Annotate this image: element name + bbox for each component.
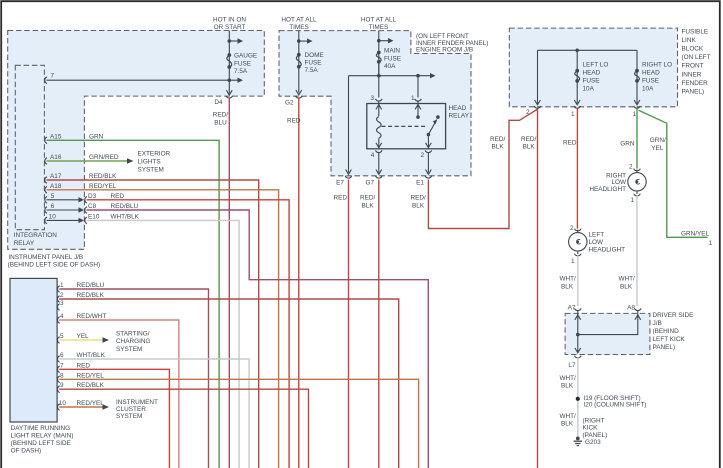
wire RED from D3: [87, 200, 290, 468]
svg-text:5: 5: [60, 333, 64, 340]
wire RED/BLU DRL pin1: [59, 289, 208, 468]
fuse RIGHT LO HEAD FUSE 10A: [635, 71, 640, 81]
wire GRN/YEL branch: [639, 110, 708, 237]
svg-text:HEAD: HEAD: [642, 70, 660, 77]
connector DRL pin 1: [58, 286, 60, 293]
svg-text:A7: A7: [568, 305, 576, 312]
svg-text:J/B: J/B: [653, 320, 662, 327]
ground G203: [576, 437, 580, 441]
fuse LEFT LO HEAD FUSE 10A: [575, 71, 580, 81]
arrow exit L7: [575, 348, 581, 353]
svg-text:LEFT KICK: LEFT KICK: [653, 336, 686, 343]
svg-text:TIMES: TIMES: [289, 24, 309, 31]
arrow exit E7: [346, 170, 352, 175]
connector integration relay pin A17: [45, 177, 47, 184]
connector head relay pin 3: [376, 99, 383, 101]
svg-text:SYSTEM: SYSTEM: [138, 166, 164, 173]
arrow exit E1: [426, 170, 432, 175]
svg-text:6: 6: [60, 352, 64, 359]
svg-text:HEADLIGHT: HEADLIGHT: [589, 186, 626, 193]
svg-text:2: 2: [420, 152, 424, 159]
svg-text:GRN/RED: GRN/RED: [89, 154, 119, 161]
dashed actuator link coil to switch: [382, 125, 428, 127]
connector D4: [226, 96, 233, 98]
svg-text:GRN/: GRN/: [650, 137, 666, 144]
engine room J/B (on left front inner fender panel): [279, 31, 471, 176]
svg-text:CHARGING: CHARGING: [116, 338, 150, 345]
wire pin5 to D3: [47, 199, 80, 201]
svg-text:RED/YEL: RED/YEL: [89, 183, 117, 190]
svg-text:YEL: YEL: [651, 145, 664, 152]
connector left headlight pin 2: [575, 229, 582, 231]
connector A7: [575, 308, 582, 310]
node I19/I20 junction: [576, 397, 580, 401]
svg-text:PANEL): PANEL): [653, 344, 676, 351]
fuse DOME 7.5A feed line: [298, 31, 300, 93]
connector integration relay pin A16: [45, 158, 47, 165]
svg-text:7: 7: [50, 73, 54, 80]
svg-text:SYSTEM: SYSTEM: [116, 346, 142, 353]
wire GRN right fuse to right low headlight: [636, 108, 638, 168]
svg-text:2: 2: [629, 163, 633, 170]
svg-text:10A: 10A: [642, 85, 654, 92]
connector DRL pin 8: [58, 376, 60, 383]
svg-text:L7: L7: [568, 362, 576, 369]
connector A8: [635, 308, 642, 310]
node switch contact open side: [436, 115, 440, 119]
svg-text:9: 9: [60, 382, 64, 389]
svg-text:RED: RED: [287, 118, 301, 125]
wire GRN/RED A16 to exterior lights: [47, 160, 128, 162]
lamp LEFT LOW HEADLIGHT: [569, 233, 587, 251]
connector integration relay pin A18: [45, 187, 47, 194]
connector DRL pin 9: [58, 386, 60, 393]
svg-text:BLOCK: BLOCK: [682, 46, 704, 53]
wire pin10 to E10: [47, 219, 80, 221]
svg-text:DOME: DOME: [305, 52, 324, 59]
wire pin4 to G7 exit: [378, 152, 380, 173]
svg-text:INSTRUMENT PANEL J/B: INSTRUMENT PANEL J/B: [8, 254, 83, 261]
svg-text:RIGHT LO: RIGHT LO: [642, 62, 672, 69]
svg-text:SYSTEM: SYSTEM: [116, 413, 142, 420]
svg-text:RED: RED: [563, 140, 577, 147]
svg-text:GAUGE: GAUGE: [234, 53, 257, 60]
svg-text:LEFT LO: LEFT LO: [583, 62, 609, 69]
wire WHT/BLK left headlight to A7: [577, 255, 579, 306]
head relay switch input pin1: [417, 101, 419, 116]
fusible link block (on left front inner fender panel): [509, 28, 677, 107]
svg-text:(ON LEFT: (ON LEFT: [682, 54, 711, 61]
node gauge feed tap: [228, 39, 232, 43]
wire right fuse drop: [636, 50, 638, 103]
svg-text:ENGINE ROOM J/B: ENGINE ROOM J/B: [416, 47, 473, 54]
svg-text:10: 10: [59, 400, 67, 407]
wire drop to head relay pin 1: [417, 76, 419, 98]
svg-text:WHT/BLK: WHT/BLK: [77, 352, 106, 359]
wire drop to E7: [348, 76, 350, 173]
fuse MAIN 40A feed line: [378, 31, 380, 76]
connector C8: [85, 207, 87, 214]
svg-text:GRN/YEL: GRN/YEL: [681, 231, 710, 238]
svg-text:G203: G203: [585, 439, 601, 446]
svg-text:I20 (COLUMN SHIFT): I20 (COLUMN SHIFT): [584, 401, 647, 408]
svg-text:A15: A15: [50, 134, 62, 141]
svg-text:BLK: BLK: [561, 283, 574, 290]
svg-text:A8: A8: [627, 305, 635, 312]
svg-text:RELAY: RELAY: [14, 240, 35, 247]
wire GRN A15: [47, 140, 220, 468]
daytime running light relay (main) box: [10, 278, 57, 422]
node driver J/B junction: [576, 333, 580, 337]
svg-text:A16: A16: [50, 154, 62, 161]
connector pin 7 integration relay: [45, 77, 47, 84]
wire A7 riser inside driver J/B: [577, 310, 579, 351]
connector head relay pin 4: [376, 150, 383, 152]
svg-text:RED/WHT: RED/WHT: [77, 313, 107, 320]
svg-text:KICK: KICK: [583, 425, 599, 432]
wire fusible bus: [538, 49, 638, 51]
connector fusible pin 1 right: [634, 106, 641, 108]
wire RED/YEL DRL pin8: [59, 379, 418, 468]
wire RED from E7 down: [348, 180, 350, 468]
wire WHT/BLK from E10: [87, 220, 240, 468]
svg-text:E7: E7: [336, 180, 344, 187]
arrow exit G2: [296, 90, 302, 95]
connector left headlight pin 1: [575, 254, 582, 256]
wire WHT/BLK right headlight to A8: [636, 195, 638, 306]
svg-text:2: 2: [60, 292, 64, 299]
connector D3: [85, 197, 87, 204]
svg-text:BLK: BLK: [412, 202, 425, 209]
wire RED left fuse to left low headlight: [576, 108, 578, 228]
svg-text:BLK: BLK: [620, 283, 633, 290]
wire YEL DRL pin5 to starting/charging: [59, 339, 103, 341]
coil of head relay: [377, 117, 382, 139]
svg-text:RED/: RED/: [360, 195, 375, 202]
connector right headlight pin 1: [634, 194, 641, 196]
node junction pin7 line: [228, 78, 232, 82]
svg-text:OR START: OR START: [214, 24, 246, 31]
head relay box: [367, 104, 446, 149]
switch blade head relay: [428, 120, 436, 134]
wire left fuse drop: [576, 50, 578, 103]
connector DRL pin 4: [58, 317, 60, 324]
connector E10: [85, 217, 87, 224]
wire RED/BLK from E1 to fusible link pin 2: [428, 109, 537, 228]
svg-text:LINK: LINK: [682, 37, 697, 44]
wire drop head relay pin 3: [378, 63, 380, 98]
svg-text:RED/BLK: RED/BLK: [77, 292, 105, 299]
svg-text:STARTING/: STARTING/: [116, 331, 150, 338]
arrow exit G7: [376, 170, 382, 175]
svg-text:OF DASH): OF DASH): [11, 447, 42, 454]
svg-text:1: 1: [411, 95, 415, 102]
svg-text:LIGHTS: LIGHTS: [138, 158, 161, 165]
connector integration relay pin A15: [45, 137, 47, 144]
svg-text:BLK: BLK: [492, 144, 505, 151]
wire RED/YEL DRL pin10 to instrument cluster: [59, 406, 103, 408]
fuse MAIN FUSE 40A symbol: [376, 53, 381, 62]
svg-text:INNER: INNER: [682, 71, 702, 78]
svg-text:7.5A: 7.5A: [305, 67, 319, 74]
connector integration relay pin 10: [45, 217, 47, 224]
svg-text:FUSE: FUSE: [234, 60, 251, 67]
wire RED/BLU from C8: [87, 210, 429, 468]
svg-text:FUSIBLE: FUSIBLE: [682, 29, 709, 36]
svg-text:1: 1: [60, 282, 64, 289]
connector integration relay pin 6: [45, 207, 47, 214]
svg-text:3: 3: [60, 300, 64, 307]
fuse GAUGE 7.5A feed line: [228, 31, 230, 94]
svg-text:(BEHIND LEFT SIDE: (BEHIND LEFT SIDE: [11, 440, 71, 447]
svg-text:CLUSTER: CLUSTER: [116, 406, 146, 413]
wire WHT/BLK DRL pin6: [59, 359, 249, 468]
wire switch pivot to pin 2: [427, 135, 429, 149]
svg-text:C8: C8: [88, 203, 97, 210]
integration relay box: [15, 65, 44, 229]
svg-text:7.5A: 7.5A: [234, 68, 248, 75]
svg-text:FUSE: FUSE: [583, 78, 600, 85]
connector right headlight pin 2: [634, 169, 641, 171]
connector E7: [345, 176, 352, 178]
svg-text:RED: RED: [77, 362, 91, 369]
wire bus from main fuse: [349, 75, 431, 77]
svg-text:5: 5: [51, 193, 55, 200]
svg-text:BLK: BLK: [561, 383, 574, 390]
svg-text:DAYTIME RUNNING: DAYTIME RUNNING: [11, 425, 71, 432]
arrow exit fusible pin 2: [535, 100, 541, 105]
svg-text:WHT/: WHT/: [619, 276, 636, 283]
arrow exit right fuse: [634, 100, 640, 105]
svg-text:INSTRUMENT: INSTRUMENT: [116, 399, 158, 406]
svg-text:FUSE: FUSE: [305, 60, 322, 67]
connector DRL pin 6: [58, 356, 60, 363]
instrument panel J/B (behind left side of dash): [8, 31, 265, 250]
svg-text:GRN: GRN: [620, 140, 635, 147]
svg-text:D3: D3: [88, 193, 97, 200]
node bus/main fuse junction: [377, 74, 381, 78]
svg-text:RED/: RED/: [213, 112, 228, 119]
svg-text:HOT IN ON: HOT IN ON: [213, 17, 246, 24]
svg-text:RED/BLU: RED/BLU: [77, 282, 105, 289]
arrow exit D4: [226, 90, 232, 95]
connector DRL pin 3: [58, 304, 60, 311]
wire RED/BLU from D4 down: [228, 98, 230, 468]
connector DRL pin 7: [58, 366, 60, 373]
wire pin7 to gauge fuse: [47, 79, 230, 81]
wire riser fusible pin2: [537, 50, 539, 104]
svg-text:RED/: RED/: [521, 136, 536, 143]
arrow pin2 exit: [426, 143, 432, 148]
svg-text:G7: G7: [365, 180, 374, 187]
svg-text:RED/: RED/: [411, 195, 426, 202]
svg-text:D4: D4: [214, 99, 223, 106]
svg-text:1: 1: [709, 240, 713, 247]
svg-text:3: 3: [370, 95, 374, 102]
arrow gauge branch right: [229, 79, 238, 81]
connector head relay pin 2: [425, 150, 432, 152]
svg-text:MAIN: MAIN: [384, 48, 400, 55]
wire junction to A8: [578, 310, 638, 334]
svg-text:8: 8: [60, 372, 64, 379]
svg-text:2: 2: [526, 109, 530, 116]
svg-text:RED: RED: [334, 195, 348, 202]
svg-text:E1: E1: [416, 180, 424, 187]
svg-text:A17: A17: [50, 173, 62, 180]
svg-text:1: 1: [571, 258, 575, 265]
svg-text:FUSE: FUSE: [384, 55, 401, 62]
wire RED DRL pin7: [59, 369, 169, 468]
arrow exit left fuse: [574, 100, 580, 105]
svg-text:G2: G2: [285, 100, 294, 107]
wire RED/BLK from fusible pin2 down: [537, 108, 539, 468]
svg-text:(BEHIND LEFT SIDE OF DASH): (BEHIND LEFT SIDE OF DASH): [8, 261, 101, 268]
node dome feed tap: [297, 39, 301, 43]
wire WHT/BLK from L7 down: [577, 357, 579, 437]
svg-text:WHT/: WHT/: [560, 413, 577, 420]
svg-text:WHT/: WHT/: [560, 276, 577, 283]
svg-text:RED/BLK: RED/BLK: [89, 173, 117, 180]
svg-text:HEAD: HEAD: [583, 70, 601, 77]
svg-text:RED/BLU: RED/BLU: [111, 203, 139, 210]
svg-text:7: 7: [60, 362, 64, 369]
svg-text:INTEGRATION: INTEGRATION: [14, 232, 58, 239]
svg-text:2: 2: [570, 225, 574, 232]
wire RED/BLK DRL pin9: [59, 389, 308, 468]
connector E1: [425, 176, 432, 178]
connector G7: [376, 176, 383, 178]
lamp RIGHT LOW HEADLIGHT: [628, 173, 646, 191]
wire pin2 to E1 exit: [427, 152, 429, 173]
svg-text:BLK: BLK: [362, 202, 375, 209]
svg-text:LOW: LOW: [589, 239, 605, 246]
svg-text:YEL: YEL: [77, 333, 90, 340]
svg-text:10A: 10A: [583, 85, 595, 92]
connector DRL pin 10: [58, 404, 60, 411]
connector DRL pin 2: [58, 296, 60, 303]
connector fusible pin 2: [534, 106, 541, 108]
svg-text:RED: RED: [111, 193, 125, 200]
arrow pin4 exit: [376, 143, 382, 148]
fuse DOME FUSE 7.5A symbol: [296, 55, 301, 67]
wire RED/BLK DRL pin2: [59, 299, 399, 468]
svg-text:40A: 40A: [384, 63, 396, 70]
svg-text:BLK: BLK: [523, 144, 536, 151]
connector L7: [575, 356, 582, 358]
svg-text:LEFT: LEFT: [589, 232, 605, 239]
node main feed tap: [377, 39, 381, 43]
svg-text:4: 4: [371, 152, 375, 159]
svg-text:LIGHT RELAY (MAIN): LIGHT RELAY (MAIN): [11, 432, 74, 439]
svg-text:6: 6: [51, 203, 55, 210]
svg-text:RED/YEL: RED/YEL: [77, 372, 105, 379]
svg-text:TIMES: TIMES: [369, 24, 389, 31]
node fusible bus left fuse: [575, 49, 579, 53]
wire RED/YEL A18: [47, 190, 279, 468]
svg-text:FRONT: FRONT: [682, 63, 704, 70]
connector fusible pin 1 left: [574, 106, 581, 108]
svg-text:GRN: GRN: [89, 134, 104, 141]
svg-text:HEAD: HEAD: [449, 105, 467, 112]
svg-text:A18: A18: [50, 183, 62, 190]
svg-text:PANEL): PANEL): [682, 88, 705, 95]
svg-text:HOT AT ALL: HOT AT ALL: [281, 17, 317, 24]
svg-text:HEADLIGHT: HEADLIGHT: [589, 247, 626, 254]
connector integration relay pin 5: [45, 197, 47, 204]
svg-text:RELAY: RELAY: [449, 113, 470, 120]
connector DRL pin 5: [58, 337, 60, 344]
connector head relay pin 1: [415, 99, 422, 101]
node switch pivot: [427, 133, 431, 137]
wire RED from G2 down: [298, 98, 300, 468]
svg-text:1: 1: [630, 197, 634, 204]
connector G2: [296, 96, 303, 98]
svg-text:DRIVER SIDE: DRIVER SIDE: [653, 312, 694, 319]
node switch contact pin1 side: [416, 115, 420, 119]
node bus/pin1 junction: [416, 74, 420, 78]
svg-text:EXTERIOR: EXTERIOR: [138, 150, 171, 157]
wire RED/WHT DRL pin4: [59, 320, 179, 468]
svg-text:BLK: BLK: [561, 421, 574, 428]
svg-text:RED/: RED/: [490, 136, 505, 143]
svg-text:RED/YEL: RED/YEL: [77, 400, 105, 407]
svg-text:BLU: BLU: [214, 119, 227, 126]
svg-text:(RIGHT: (RIGHT: [583, 417, 605, 424]
svg-text:FUSE: FUSE: [642, 78, 659, 85]
svg-text:(PANEL): (PANEL): [583, 432, 608, 439]
svg-text:RED/BLK: RED/BLK: [77, 382, 105, 389]
svg-text:FENDER: FENDER: [682, 80, 709, 87]
svg-text:WHT/BLK: WHT/BLK: [111, 214, 140, 221]
driver side J/B (behind left kick panel): [565, 313, 650, 354]
svg-text:E10: E10: [88, 214, 100, 221]
head relay coil branch pin3: [378, 101, 380, 117]
svg-text:HOT AT ALL: HOT AT ALL: [361, 17, 397, 24]
svg-text:1: 1: [632, 111, 636, 118]
wire RED/BLK A17: [47, 180, 259, 468]
wire pin6 to C8: [47, 209, 80, 211]
svg-text:WHT/: WHT/: [560, 375, 577, 382]
svg-text:10: 10: [49, 214, 57, 221]
svg-text:(BEHIND: (BEHIND: [653, 328, 680, 335]
wire RED/BLK from G7 down: [378, 180, 380, 468]
svg-text:1: 1: [571, 111, 575, 118]
svg-text:4: 4: [60, 313, 64, 320]
fuse GAUGE FUSE 7.5A symbol: [227, 55, 232, 67]
